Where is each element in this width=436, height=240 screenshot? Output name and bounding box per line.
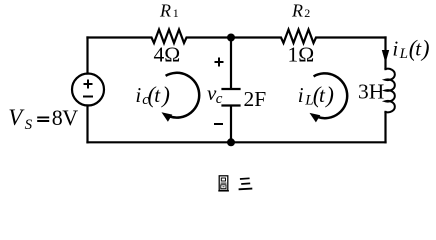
svg-text:c: c	[216, 91, 223, 107]
svg-text:3H: 3H	[358, 79, 384, 103]
svg-text:): )	[324, 83, 334, 108]
svg-text:S: S	[25, 117, 33, 133]
svg-text:2F: 2F	[244, 87, 267, 111]
svg-text:t: t	[319, 83, 326, 107]
svg-text:1Ω: 1Ω	[288, 42, 315, 66]
svg-text:): )	[420, 36, 430, 61]
svg-text:R: R	[159, 1, 171, 21]
svg-text:1: 1	[173, 6, 179, 20]
svg-text:4Ω: 4Ω	[154, 42, 181, 66]
svg-text:8: 8	[52, 105, 63, 130]
svg-text:R: R	[291, 1, 303, 21]
svg-text:V: V	[8, 105, 25, 130]
svg-text:t: t	[154, 83, 161, 107]
svg-text:2: 2	[304, 6, 310, 20]
svg-text:L: L	[399, 46, 408, 62]
svg-text:i: i	[135, 83, 141, 107]
svg-text:i: i	[392, 37, 398, 61]
svg-text:i: i	[298, 83, 304, 107]
svg-text:V: V	[62, 105, 78, 130]
svg-text:): )	[160, 83, 170, 108]
